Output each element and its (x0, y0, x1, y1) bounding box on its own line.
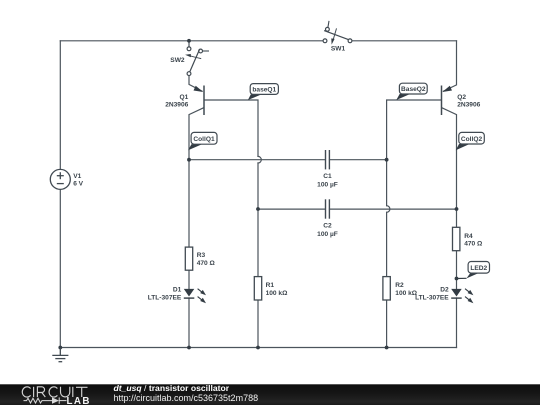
wire hop at x258 y160 (258, 156, 261, 163)
LED D1 (148, 286, 206, 303)
node ground junction (58, 346, 62, 350)
wire R3 to D1 (188, 270, 190, 289)
wire Q2 collector drop (442, 108, 457, 228)
svg-text:2N3906: 2N3906 (457, 102, 480, 109)
capacitor C2 (317, 199, 338, 238)
wire left vertical V1 top (59, 41, 61, 170)
svg-text:R2: R2 (395, 282, 404, 289)
wire top-left horizontal (60, 40, 323, 42)
transistor Q1 (165, 86, 204, 116)
flag baseQ1 (248, 84, 279, 100)
logo CIRCUIT LAB (22, 387, 91, 405)
footer credit text (114, 383, 259, 403)
svg-text:D1: D1 (173, 286, 182, 293)
svg-text:LAB: LAB (67, 396, 91, 405)
svg-text:470 Ω: 470 Ω (197, 260, 216, 267)
wire left vertical V1 bottom (59, 189, 61, 347)
wire top-right horizontal (352, 40, 457, 42)
node bottom R1 branch (256, 346, 260, 350)
wire C2 right (330, 208, 457, 210)
wire R2 bottom (386, 300, 388, 347)
wire SW2 bottom to Q1 emitter (189, 76, 202, 92)
svg-text:baseQ1: baseQ1 (252, 87, 276, 94)
wire baseQ1 vertical to R1 (257, 163, 259, 277)
svg-text:2N3906: 2N3906 (165, 102, 188, 109)
svg-text:CollQ2: CollQ2 (461, 136, 483, 143)
node CollQ1 / C1 junction (187, 158, 191, 162)
svg-text:SW2: SW2 (170, 57, 185, 64)
resistor R1 (254, 277, 288, 300)
wire hop at x386 y209 (387, 206, 390, 213)
wire C1 left (189, 159, 325, 161)
transistor Q2 (442, 86, 481, 116)
svg-text:C2: C2 (323, 223, 332, 230)
svg-text:V1: V1 (73, 173, 81, 180)
wire D2 to bottom (456, 298, 458, 348)
svg-text:6 V: 6 V (73, 180, 83, 187)
footer bar (0, 384, 540, 405)
flag LED2 (455, 262, 490, 281)
ground (52, 348, 68, 362)
switch SW2 (170, 47, 209, 76)
wire C1 right (330, 159, 387, 161)
wire Q2 emitter drop from top (444, 41, 457, 91)
svg-text:BaseQ2: BaseQ2 (401, 86, 426, 93)
wire bottom horizontal (60, 347, 456, 349)
node C2 right junction (455, 207, 459, 211)
svg-text:R4: R4 (464, 233, 473, 240)
resistor R4 (453, 227, 484, 250)
resistor R3 (185, 247, 215, 270)
svg-text:R3: R3 (197, 252, 206, 259)
node junction dots (58, 39, 458, 350)
wire SW2 stub from top wire (188, 41, 190, 47)
capacitor C1 (317, 150, 338, 189)
wire Q1 collector drop (189, 108, 204, 247)
svg-text:D2: D2 (440, 286, 449, 293)
svg-text:100 µF: 100 µF (317, 231, 338, 238)
svg-text:SW1: SW1 (331, 46, 346, 53)
resistor R2 (383, 277, 418, 300)
wire R1 bottom (257, 300, 259, 347)
wire D1 to bottom (188, 298, 190, 348)
flag BaseQ2 (396, 83, 427, 100)
flag CollQ1 (188, 132, 217, 150)
svg-text:LED2: LED2 (470, 265, 487, 272)
node bottom R2 branch (385, 346, 389, 350)
node C1 right junction (385, 158, 389, 162)
node SW2 tap on top wire (187, 39, 191, 43)
svg-text:CollQ1: CollQ1 (193, 136, 215, 143)
svg-text:Q2: Q2 (457, 94, 466, 101)
node C2 left junction (256, 207, 260, 211)
wire C2 left (258, 208, 325, 210)
svg-text:100 µF: 100 µF (317, 182, 338, 189)
wire Q1 base to baseQ1 corner (204, 100, 258, 156)
wire R4 to D2 (456, 251, 458, 289)
LED D2 (415, 286, 473, 303)
wire Q2 base to BaseQ2 corner (387, 100, 442, 206)
switch SW1 (323, 21, 352, 53)
svg-text:http://circuitlab.com/c536735t: http://circuitlab.com/c536735t2m788 (114, 393, 259, 403)
svg-text:470 Ω: 470 Ω (464, 241, 483, 248)
svg-text:LTL-307EE: LTL-307EE (415, 294, 449, 301)
svg-text:Q1: Q1 (180, 94, 189, 101)
svg-text:C1: C1 (323, 173, 332, 180)
svg-text:100 kΩ: 100 kΩ (266, 290, 289, 297)
wire BaseQ2 vertical to R2 (386, 212, 388, 276)
node bottom R3 branch (187, 346, 191, 350)
svg-text:dt_usq / transistor oscillator: dt_usq / transistor oscillator (114, 383, 230, 393)
voltage source V1 (50, 169, 83, 189)
svg-text:LTL-307EE: LTL-307EE (148, 294, 182, 301)
flag CollQ2 (456, 132, 485, 150)
svg-text:R1: R1 (266, 282, 275, 289)
